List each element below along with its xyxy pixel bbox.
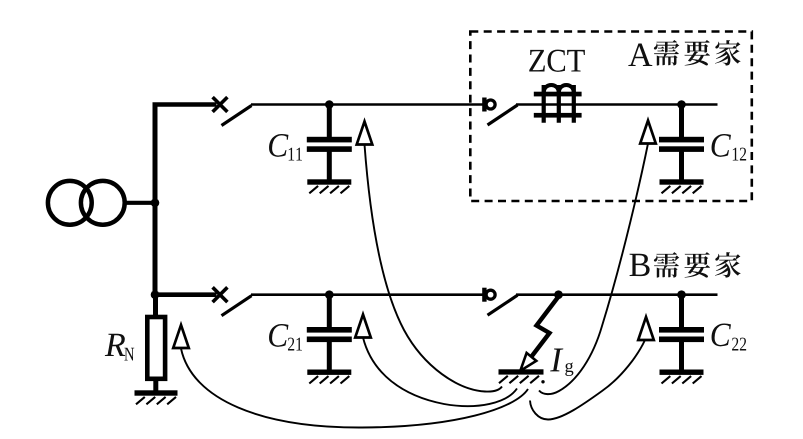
ZCT bottom bar <box>534 113 582 118</box>
node C21 tap <box>325 290 334 299</box>
label kanji yo B <box>684 252 710 278</box>
wire upper feeder thick segment <box>153 102 217 107</box>
capacitor C22 plates <box>659 327 704 333</box>
capacitor C21 stem <box>327 295 332 372</box>
label C22 <box>712 323 731 346</box>
node C12 tap <box>677 100 686 109</box>
capacitor C12 plates <box>659 137 704 143</box>
wire main bus vertical <box>153 104 158 295</box>
node C22 tap <box>677 290 686 299</box>
wire lower feeder customer segment <box>516 293 718 296</box>
fault zigzag Ig <box>530 297 559 359</box>
label ZCT <box>529 50 545 72</box>
current path curve to C22 <box>530 340 645 420</box>
label kanji ju B <box>654 252 679 278</box>
capacitor C22 stem <box>679 295 684 372</box>
label kanji ka B <box>715 252 741 277</box>
label C12 <box>712 134 731 157</box>
label kanji yo A <box>684 40 710 66</box>
current path curve to C11 <box>365 145 503 392</box>
label C21 <box>269 324 288 347</box>
breaker contact lower customer B <box>482 288 486 302</box>
ZCT top bar <box>534 92 582 97</box>
current arrow at RN <box>173 325 189 348</box>
node C11 tap <box>325 100 334 109</box>
label kanji ju A <box>654 40 679 66</box>
capacitor C11 stem <box>327 105 332 182</box>
label B customer <box>630 254 650 276</box>
dashed box customer A <box>470 32 752 202</box>
ZCT winding arcs <box>544 85 574 93</box>
wire upper feeder customer segment <box>516 103 718 106</box>
switch S2 lower source side <box>213 287 228 302</box>
breaker contact upper customer A <box>482 98 486 112</box>
node fault tap <box>554 290 563 299</box>
ZCT core legs <box>544 85 574 123</box>
dot after fault ground <box>541 380 544 383</box>
node transformer junction <box>151 199 160 208</box>
label C11 <box>269 134 288 157</box>
current arrow at C21 <box>355 315 371 338</box>
wire lower feeder thin segment <box>251 293 483 296</box>
capacitor C21 plates <box>307 327 352 333</box>
label Ig <box>550 348 563 371</box>
wire upper feeder thin segment <box>251 103 483 106</box>
capacitor C11 plates <box>307 137 352 143</box>
ground under C12 <box>660 179 704 184</box>
wire RN to ground <box>153 380 158 391</box>
ground under C21 <box>307 370 351 375</box>
wire transformer to bus <box>125 201 156 205</box>
current path curve to RN <box>181 349 528 428</box>
switch S1 upper source side <box>213 97 228 112</box>
ground under C22 <box>660 370 704 375</box>
current path curve to C21 <box>363 338 517 407</box>
wire lower feeder thick segment <box>153 292 217 297</box>
wire bus to RN <box>153 295 158 318</box>
current arrow at C12 <box>640 121 656 144</box>
current arrow at C11 <box>357 122 373 145</box>
label kanji ka A <box>715 40 741 65</box>
label RN <box>105 334 125 356</box>
ground at fault point <box>499 369 544 374</box>
current arrow at C22 <box>638 317 654 340</box>
label A customer <box>628 44 652 66</box>
transformer T1 <box>48 181 92 225</box>
current path curve to C12 <box>539 144 648 395</box>
ground under RN <box>135 390 178 395</box>
node lower feeder junction <box>151 290 160 299</box>
ground under C11 <box>307 179 351 184</box>
capacitor C12 stem <box>679 105 684 182</box>
resistor RN body <box>147 317 165 379</box>
fault arrowhead <box>520 353 536 371</box>
